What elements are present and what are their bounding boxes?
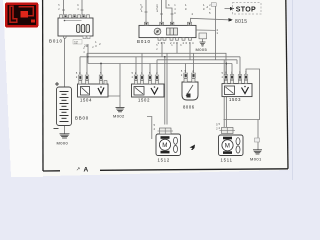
svg-text:M005: M005 [196, 47, 208, 52]
svg-text:1503: 1503 [229, 97, 241, 102]
svg-text:1512: 1512 [158, 157, 171, 162]
svg-text:M: M [225, 143, 230, 150]
svg-text:2: 2 [92, 46, 94, 49]
svg-text:4: 4 [77, 8, 79, 11]
svg-text:1504: 1504 [80, 98, 92, 103]
svg-text:↗: ↗ [76, 167, 80, 173]
svg-text:1511: 1511 [221, 157, 233, 162]
svg-text:9: 9 [77, 4, 79, 7]
svg-text:1: 1 [174, 4, 176, 7]
svg-text:1: 1 [209, 8, 211, 11]
svg-text:A: A [84, 167, 89, 174]
svg-text:2: 2 [156, 48, 158, 51]
svg-text:1502: 1502 [138, 98, 150, 103]
svg-text:4: 4 [83, 51, 85, 54]
svg-text:M000: M000 [57, 140, 69, 145]
svg-text:8006: 8006 [183, 105, 195, 110]
svg-text:4: 4 [174, 8, 176, 11]
svg-text:M002: M002 [113, 114, 125, 119]
svg-text:B010: B010 [137, 39, 151, 44]
svg-text:M: M [162, 142, 167, 149]
svg-text:5: 5 [58, 4, 60, 7]
svg-text:BB00: BB00 [75, 116, 89, 121]
svg-text:2: 2 [58, 8, 60, 11]
svg-text:8015: 8015 [235, 19, 247, 25]
svg-text:2: 2 [83, 47, 85, 50]
svg-text:2: 2 [209, 4, 211, 7]
svg-text:M001: M001 [250, 156, 262, 161]
svg-text:12: 12 [74, 40, 78, 44]
svg-text:B010: B010 [49, 39, 63, 44]
svg-text:STOP: STOP [236, 7, 256, 14]
